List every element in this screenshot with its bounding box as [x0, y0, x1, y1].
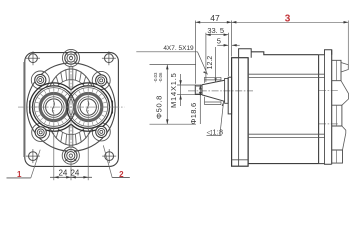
gear bore right bearing ring	[75, 93, 102, 120]
corner hole bottom right	[102, 149, 116, 163]
bolt boss lower left	[32, 123, 50, 141]
gear chamber outline left	[30, 83, 71, 131]
gear bore left bearing ring	[40, 93, 67, 120]
gear bore left outer	[33, 86, 76, 129]
fan dome bottom inner arch	[54, 123, 88, 135]
svg-text:M14X1.5: M14X1.5	[169, 72, 178, 108]
fan spokes top	[52, 69, 90, 88]
bolt boss lower right	[92, 123, 110, 141]
center channel bottom	[68, 126, 70, 147]
dimension phi50.8	[150, 64, 197, 124]
gear bore left inner circle	[44, 97, 65, 118]
svg-text:Φ50.8: Φ50.8	[155, 95, 164, 119]
bolt top ticks	[66, 53, 77, 64]
centerline vertical right bore	[87, 82, 89, 134]
fan dome top inner arch	[54, 80, 88, 92]
dimension 12.2	[215, 47, 217, 83]
body band upper	[248, 73, 324, 75]
svg-text:1: 1	[17, 170, 22, 179]
shaft centerline	[188, 90, 253, 92]
shaft taper	[202, 80, 225, 101]
bolt top center	[65, 52, 77, 64]
bolt boss bottom center	[62, 147, 79, 164]
svg-text:2: 2	[119, 170, 124, 179]
port plate bottom bump	[332, 150, 343, 163]
center channel top	[68, 67, 70, 89]
shaft thread M14	[195, 85, 202, 94]
flange plate step line	[232, 159, 249, 161]
flange plate (front view mounting flange)	[25, 53, 119, 167]
body outline circle	[27, 63, 115, 151]
flange inner plate line	[238, 58, 240, 167]
svg-text:24: 24	[70, 168, 79, 177]
fan dome top outer arch	[50, 69, 91, 85]
shaft spline lines bottom	[205, 97, 222, 105]
gear bore left shaft circle	[46, 99, 62, 115]
flange plate side view	[232, 58, 249, 167]
dimension M14X1.5	[177, 74, 195, 106]
port plate top bump	[332, 60, 341, 80]
bolt upper left	[35, 74, 46, 85]
svg-text:33. 5: 33. 5	[207, 26, 224, 35]
fitting top small	[341, 63, 348, 73]
centerline vertical left bore	[53, 82, 55, 134]
gear bore right shaft key mark	[87, 101, 89, 114]
body band lower	[248, 133, 324, 135]
gear bore right inner circle	[78, 97, 99, 118]
gear bore left shaft key mark	[52, 101, 54, 114]
gear bore right teeth ticks	[72, 88, 108, 126]
svg-text:Φ18.6: Φ18.6	[189, 102, 198, 124]
centerline horizontal front view	[18, 106, 125, 108]
fan spokes bottom	[52, 126, 90, 145]
fitting cone lower	[342, 126, 346, 150]
gear bore right shaft circle	[80, 99, 96, 115]
gear bore left teeth ticks	[35, 88, 71, 126]
bolt boss top center	[62, 49, 79, 66]
dimension 24-24 arrows	[54, 176, 88, 179]
dimension 33.5	[206, 33, 229, 82]
port plate middle bump	[332, 105, 342, 126]
dimension 24-24 extension lines	[54, 133, 88, 180]
pilot boss	[228, 77, 231, 114]
flange left edge inner line	[23, 62, 25, 157]
dimension phi18.6	[199, 85, 201, 125]
corner hole bottom left	[26, 149, 40, 163]
gear bore right outer	[67, 86, 110, 129]
svg-text:5: 5	[217, 36, 221, 45]
svg-text:-0.06: -0.06	[158, 72, 163, 83]
bolt bottom ticks	[65, 150, 76, 161]
pressure port flat right	[111, 101, 113, 114]
bolt bottom center	[65, 149, 77, 161]
lower port centerline	[319, 123, 338, 125]
gear chamber outline right	[71, 83, 112, 131]
bolt lower left	[35, 127, 46, 138]
shaft shoulder	[225, 79, 229, 104]
suction port flat left	[29, 101, 31, 114]
centerline vertical middle	[70, 51, 72, 174]
item 3 line with arrows	[232, 21, 349, 66]
corner hole top left	[26, 51, 40, 65]
fitting cone upper	[341, 81, 349, 106]
label 1 leader	[7, 150, 41, 178]
port plate inner verticals	[335, 60, 337, 163]
bolt upper right	[96, 75, 107, 86]
rear cover	[319, 50, 332, 165]
corner hole top right	[102, 51, 116, 65]
bolt boss upper left	[31, 71, 49, 89]
svg-text:47: 47	[210, 13, 220, 23]
bolt lower right	[96, 126, 107, 137]
tolerance text	[153, 72, 163, 83]
fan dome bottom outer arch	[50, 129, 91, 145]
svg-text:12.2: 12.2	[207, 56, 214, 70]
svg-text:4X7. 5X19: 4X7. 5X19	[163, 45, 194, 52]
bolt boss upper right	[92, 71, 110, 89]
shaft spline lines top	[205, 77, 222, 83]
label 2 leader	[103, 145, 130, 177]
dimension 5	[217, 44, 240, 46]
gear bore right tip circle	[69, 88, 108, 127]
svg-text:3: 3	[285, 13, 291, 24]
dimension 47	[195, 21, 231, 84]
svg-text:24: 24	[58, 168, 67, 177]
gear bore left tip circle	[34, 88, 73, 127]
body main outline	[248, 52, 319, 164]
bore white masks	[33, 86, 76, 129]
dimension 24-24 line	[50, 176, 92, 178]
pump body top left block	[239, 49, 252, 58]
